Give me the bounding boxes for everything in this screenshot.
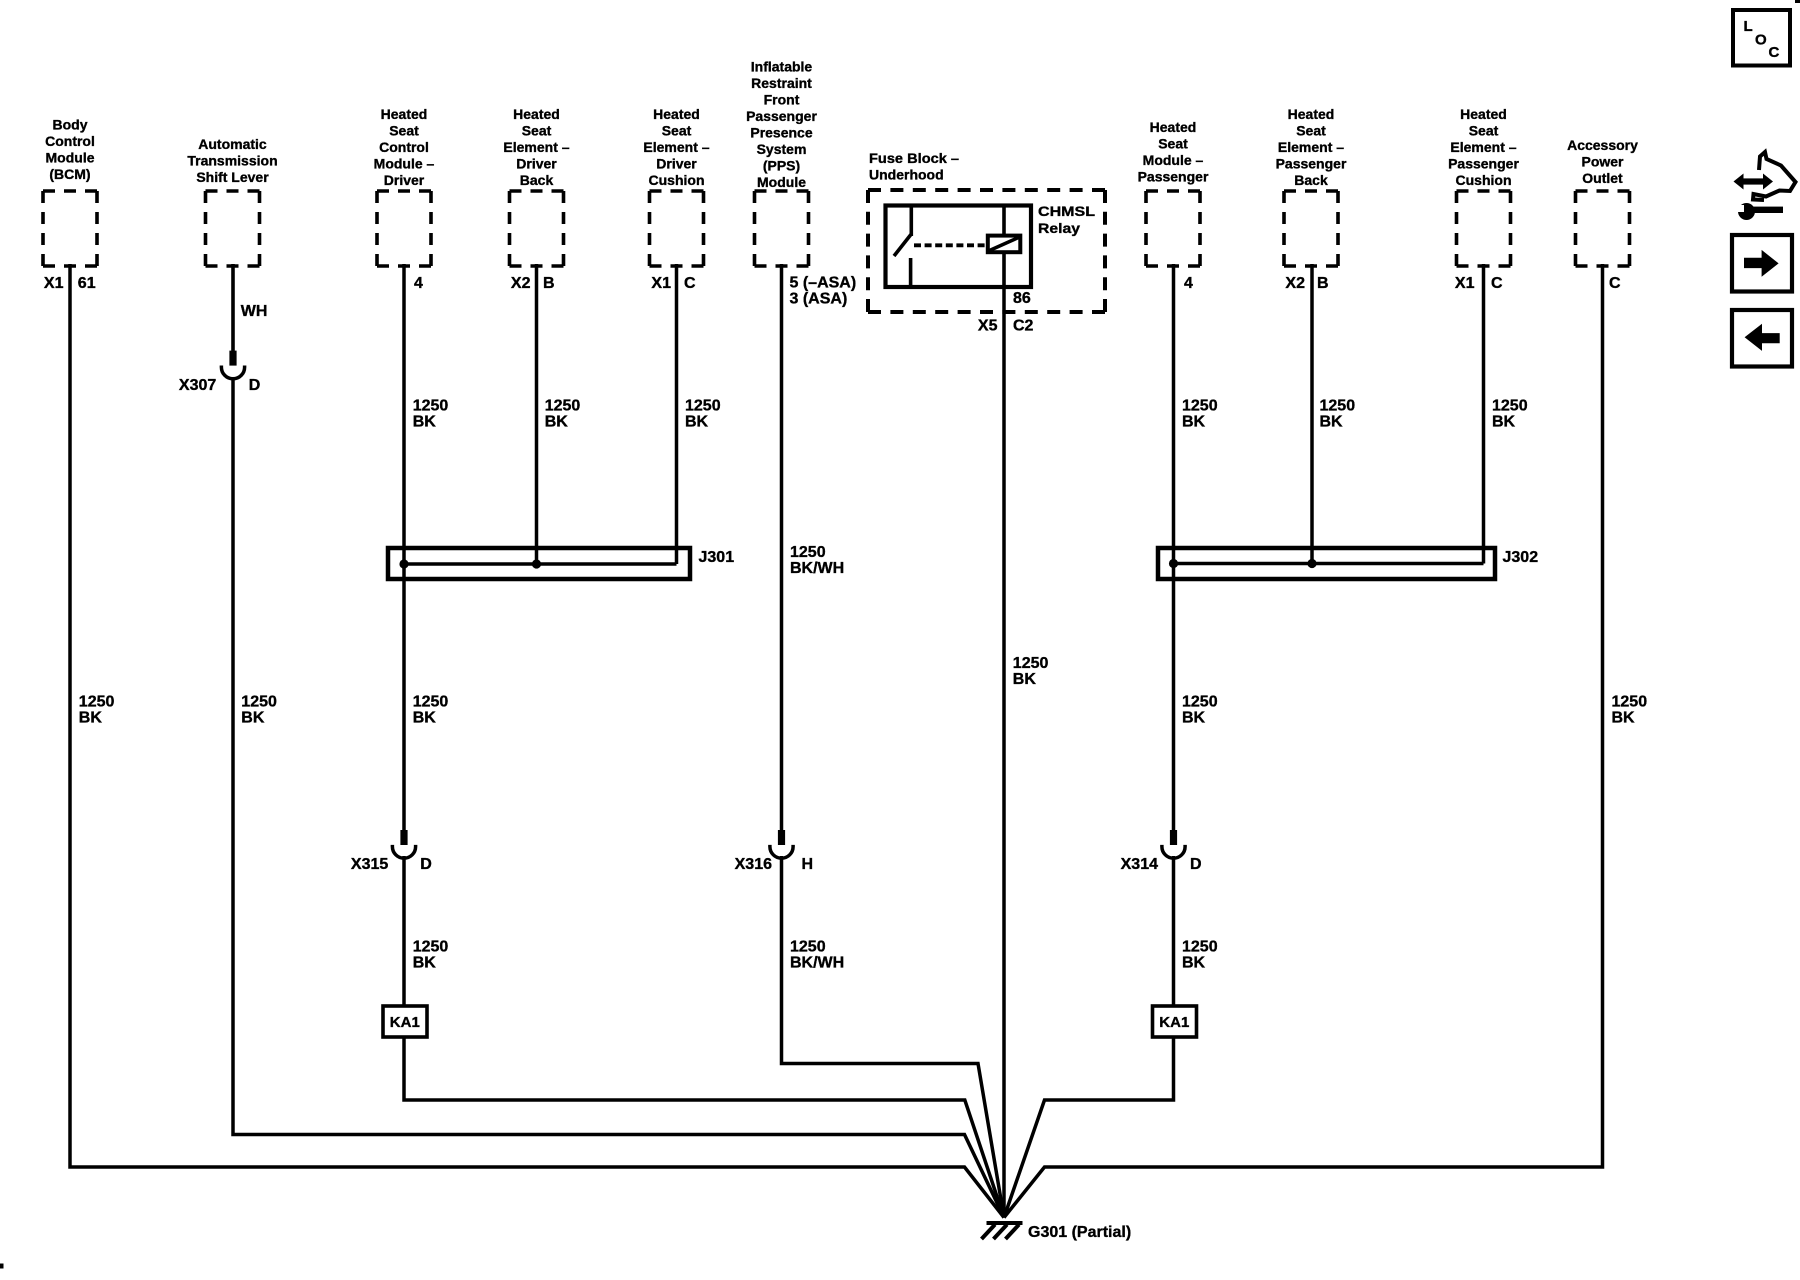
- svg-text:X1: X1: [651, 275, 671, 292]
- wire KA1 driver to ground: [404, 1036, 1004, 1218]
- scan artifact top right: [1795, 0, 1800, 3]
- svg-text:B: B: [543, 275, 555, 292]
- svg-text:CHMSLRelay: CHMSLRelay: [1038, 203, 1096, 236]
- svg-text:BodyControlModule(BCM): BodyControlModule(BCM): [45, 117, 95, 183]
- svg-text:X315: X315: [351, 856, 388, 873]
- svg-text:X2: X2: [511, 275, 531, 292]
- relay coil slash: [990, 238, 1019, 251]
- svg-text:1250BK/WH: 1250BK/WH: [790, 939, 844, 972]
- svg-text:3 (ASA): 3 (ASA): [790, 291, 848, 308]
- relay actuation dashed link: [914, 243, 987, 247]
- wire X315 to KA1 driver: [402, 856, 406, 1007]
- wire HSCM-Driver to X315: [402, 264, 406, 830]
- svg-text:1250BK: 1250BK: [79, 694, 115, 727]
- nav icon double arrow: [1734, 174, 1774, 190]
- svg-text:1250BK: 1250BK: [241, 694, 277, 727]
- splice J301 inner bus: [404, 562, 677, 566]
- connector X315: [392, 830, 415, 858]
- svg-text:C: C: [1769, 44, 1780, 61]
- wire HSE driver cushion to J301: [675, 264, 679, 564]
- connector X307: [221, 351, 244, 379]
- svg-text:C: C: [1491, 275, 1503, 292]
- svg-text:1250BK/WH: 1250BK/WH: [790, 544, 844, 577]
- module accessory power outlet box: [1576, 191, 1630, 266]
- svg-text:5 (–ASA): 5 (–ASA): [790, 275, 857, 292]
- svg-text:HeatedSeatElement –DriverBack: HeatedSeatElement –DriverBack: [503, 106, 569, 188]
- svg-text:X1: X1: [44, 275, 64, 292]
- wire X316 to ground: [782, 856, 1005, 1218]
- svg-text:1250BK: 1250BK: [1612, 694, 1648, 727]
- relay coil vertical: [1002, 206, 1006, 288]
- module HSE driver cushion box: [650, 191, 704, 266]
- svg-text:WH: WH: [241, 303, 268, 320]
- svg-text:1250BK: 1250BK: [685, 398, 721, 431]
- svg-text:D: D: [1190, 856, 1202, 873]
- scan artifact bottom left: [0, 1264, 4, 1269]
- svg-text:1250BK: 1250BK: [545, 398, 581, 431]
- svg-text:G301 (Partial): G301 (Partial): [1028, 1224, 1131, 1241]
- svg-text:InflatableRestraintFrontPassen: InflatableRestraintFrontPassengerPresenc…: [746, 59, 817, 191]
- svg-text:HeatedSeatControlModule –Drive: HeatedSeatControlModule –Driver: [374, 106, 435, 188]
- svg-text:L: L: [1744, 18, 1753, 35]
- wire X314 to KA1 passenger: [1172, 856, 1176, 1007]
- CHMSL relay box: [886, 206, 1032, 288]
- ground G301 hash 1: [982, 1225, 996, 1240]
- svg-text:HeatedSeatElement –PassengerBa: HeatedSeatElement –PassengerBack: [1276, 106, 1347, 188]
- junction dot J301 middle: [532, 559, 541, 568]
- svg-text:1250BK: 1250BK: [1182, 694, 1218, 727]
- svg-text:C2: C2: [1013, 318, 1034, 335]
- svg-text:86: 86: [1013, 290, 1031, 307]
- wire ATSL upper segment: [231, 264, 235, 351]
- module BCM box: [43, 191, 97, 266]
- relay switch lower contact: [909, 258, 913, 287]
- svg-text:C: C: [684, 275, 696, 292]
- wire BCM ground run: [70, 264, 1004, 1218]
- svg-text:1250BK: 1250BK: [1492, 398, 1528, 431]
- nav icon wrench: [1731, 203, 1783, 220]
- svg-text:J301: J301: [699, 549, 735, 566]
- relay switch blade: [894, 234, 911, 256]
- nav box arrow right: [1732, 235, 1792, 292]
- svg-text:4: 4: [414, 275, 423, 292]
- svg-text:1250BK: 1250BK: [1320, 398, 1356, 431]
- wire HSE driver back to J301: [535, 264, 539, 564]
- relay switch fixed contact: [909, 206, 913, 237]
- svg-text:1250BK: 1250BK: [1182, 398, 1218, 431]
- module PPS box: [755, 191, 809, 266]
- wire KA1 passenger to ground: [1004, 1036, 1174, 1218]
- svg-text:4: 4: [1184, 275, 1193, 292]
- svg-text:H: H: [802, 856, 814, 873]
- wire CHMSL relay to ground: [1002, 287, 1006, 1218]
- svg-text:HeatedSeatElement –DriverCushi: HeatedSeatElement –DriverCushion: [643, 106, 709, 188]
- wire PPS to X316: [780, 264, 784, 830]
- ground G301 hash 3: [1006, 1225, 1020, 1240]
- svg-text:1250BK: 1250BK: [413, 939, 449, 972]
- svg-text:C: C: [1609, 275, 1621, 292]
- wire HSE passenger back to J302: [1310, 264, 1314, 564]
- LOC legend box: [1733, 10, 1790, 66]
- nav icon pointer outline: [1753, 152, 1796, 200]
- wire HSE passenger cushion to J302: [1482, 264, 1486, 564]
- svg-text:1250BK: 1250BK: [413, 398, 449, 431]
- module HSCM driver box: [377, 191, 431, 266]
- junction dot J302 left: [1169, 559, 1178, 568]
- svg-text:HeatedSeatElement –PassengerCu: HeatedSeatElement –PassengerCushion: [1448, 106, 1519, 188]
- svg-text:1250BK: 1250BK: [1182, 939, 1218, 972]
- connector X314: [1162, 830, 1185, 858]
- junction dot J302 middle: [1307, 559, 1316, 568]
- module ATSL box: [206, 191, 260, 266]
- ground G301 hash 2: [994, 1225, 1008, 1240]
- arrow left glyph: [1745, 324, 1780, 351]
- svg-text:X316: X316: [735, 856, 772, 873]
- svg-text:B: B: [1317, 275, 1329, 292]
- svg-text:1250BK: 1250BK: [1013, 655, 1049, 688]
- svg-text:X1: X1: [1455, 275, 1475, 292]
- arrow right glyph: [1744, 250, 1779, 277]
- svg-text:X314: X314: [1121, 856, 1158, 873]
- svg-text:HeatedSeatModule –Passenger: HeatedSeatModule –Passenger: [1138, 119, 1209, 185]
- wire HSM passenger to X314: [1172, 264, 1176, 830]
- fuse block underhood dashed box: [868, 190, 1105, 312]
- svg-text:D: D: [249, 377, 261, 394]
- wire accessory power outlet to ground: [1004, 264, 1603, 1218]
- connector X316: [770, 830, 793, 858]
- svg-text:O: O: [1755, 32, 1767, 49]
- svg-text:D: D: [420, 856, 432, 873]
- svg-text:61: 61: [78, 275, 96, 292]
- nav box arrow left: [1732, 310, 1792, 367]
- splice KA1 passenger box: [1153, 1006, 1197, 1037]
- svg-text:X2: X2: [1285, 275, 1305, 292]
- splice J302 inner bus: [1174, 562, 1484, 566]
- junction dot J301 left: [399, 559, 408, 568]
- svg-text:Fuse Block –Underhood: Fuse Block –Underhood: [869, 150, 959, 183]
- splice pack J302 box: [1158, 548, 1495, 579]
- relay coil box: [988, 236, 1021, 253]
- svg-text:X307: X307: [179, 377, 216, 394]
- module HSE driver back box: [510, 191, 564, 266]
- splice KA1 driver box: [383, 1006, 427, 1037]
- ground G301 bar: [987, 1221, 1023, 1225]
- svg-text:J302: J302: [1503, 549, 1539, 566]
- svg-text:AutomaticTransmissionShift Lev: AutomaticTransmissionShift Lever: [187, 136, 277, 185]
- wire ATSL lower ground run: [233, 377, 1004, 1218]
- svg-text:1250BK: 1250BK: [413, 694, 449, 727]
- svg-text:KA1: KA1: [390, 1014, 420, 1031]
- module HSE passenger cushion box: [1457, 191, 1511, 266]
- module HSE passenger back box: [1284, 191, 1338, 266]
- svg-text:KA1: KA1: [1159, 1014, 1189, 1031]
- splice pack J301 box: [388, 548, 690, 579]
- svg-text:X5: X5: [978, 318, 998, 335]
- svg-text:AccessoryPowerOutlet: AccessoryPowerOutlet: [1567, 137, 1638, 186]
- module HSM passenger box: [1146, 191, 1200, 266]
